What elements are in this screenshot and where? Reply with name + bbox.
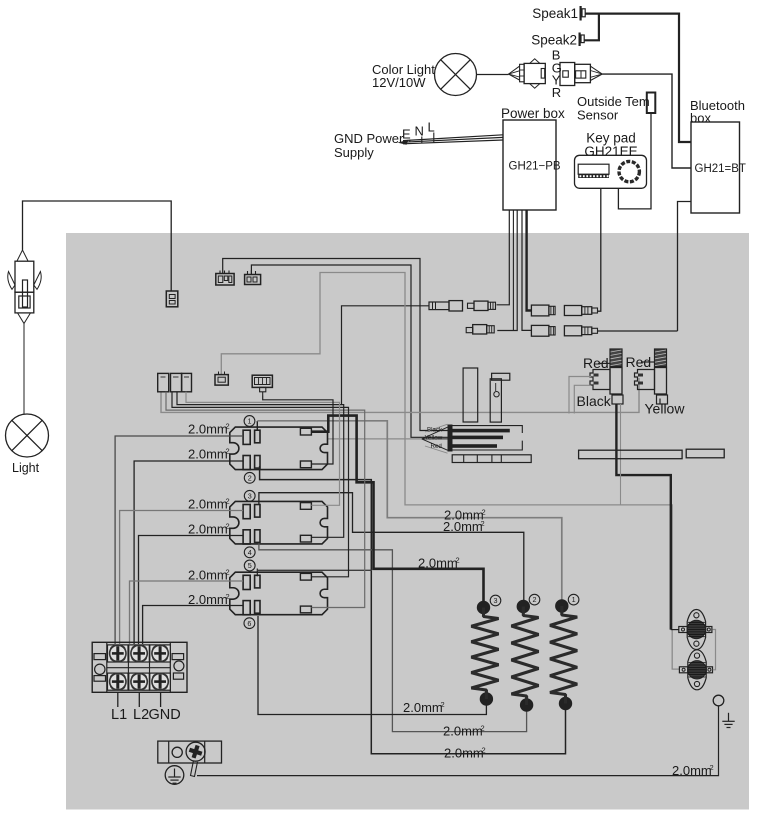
- svg-text:L: L: [428, 120, 435, 135]
- label black (small): [427, 426, 443, 433]
- wire C2 stub: [262, 392, 264, 396]
- svg-text:2: 2: [226, 522, 230, 531]
- terminal block body: [92, 642, 187, 692]
- svg-text:2: 2: [481, 724, 485, 733]
- inline connector pair D: [531, 325, 597, 336]
- terminal number 4: [244, 547, 255, 558]
- terminal block left fittings: [94, 654, 106, 682]
- wire L-feed 1: [115, 436, 243, 644]
- label Power box: [501, 106, 565, 121]
- svg-text:2.0mm: 2.0mm: [188, 497, 228, 512]
- wire power box line5 thick to pair B: [527, 210, 532, 311]
- connector B2 (panel top): [245, 270, 261, 285]
- wire L-feed 4: [139, 536, 244, 645]
- relay box K3: [230, 572, 328, 615]
- svg-text:Yellow: Yellow: [425, 435, 443, 442]
- svg-text:2: 2: [226, 422, 230, 431]
- wire terminal5 stub: [257, 569, 372, 577]
- svg-text:GH21=BT: GH21=BT: [695, 163, 746, 175]
- wire bundle K2-BR: [177, 392, 344, 538]
- wire earth to ground plate: [197, 706, 719, 776]
- wire lead GND: [160, 692, 162, 707]
- lamp light: [6, 414, 49, 457]
- heating element 1: [550, 600, 577, 710]
- 4-pin connector P1 (color light): [509, 59, 546, 88]
- bus bar 3: [453, 444, 498, 448]
- svg-text:2.0mm: 2.0mm: [188, 422, 228, 437]
- terminal screws row2: [108, 673, 171, 690]
- splitter block: [448, 425, 453, 452]
- small connector C1: [215, 372, 228, 386]
- wire red lead left: [598, 362, 610, 364]
- inline connector pair B: [531, 305, 597, 316]
- wire connector B2 loop: [251, 265, 447, 437]
- outside temp sensor probe: [647, 93, 656, 114]
- svg-text:E: E: [402, 127, 411, 142]
- wire power box line3 to connector C: [497, 210, 517, 331]
- connector C2 (4-pin): [252, 375, 272, 392]
- label 2.0mm bottom1: [403, 700, 445, 715]
- wire L-feed 2: [134, 461, 243, 644]
- svg-text:GH21−PB: GH21−PB: [509, 161, 561, 173]
- wire bundle K1-BR: [263, 396, 333, 465]
- svg-text:GH21EE: GH21EE: [584, 144, 637, 159]
- svg-text:Red: Red: [431, 443, 443, 450]
- wire sensor to keypad: [618, 113, 651, 209]
- label Outside Temp Sensor: [577, 94, 650, 123]
- svg-text:N: N: [415, 124, 424, 139]
- label Red (right sensor): [626, 354, 652, 370]
- label 2.0mm row1: [188, 422, 230, 437]
- earth symbol right: [722, 713, 734, 728]
- element number 2: [529, 594, 540, 605]
- wire terminal2 to element1 bottom: [260, 466, 566, 754]
- inline connector pair A: [429, 301, 496, 311]
- label yellow (small): [425, 435, 443, 442]
- wire connector to bluetooth box: [602, 74, 691, 168]
- svg-text:2: 2: [441, 700, 445, 709]
- svg-text:3: 3: [248, 491, 252, 500]
- wire terminal6 to element3 bottom: [258, 616, 486, 715]
- svg-text:Black: Black: [577, 393, 612, 409]
- label Speak2: [531, 33, 577, 48]
- wires E N L to power box: [398, 133, 504, 145]
- terminal number 1: [244, 416, 255, 427]
- label 2.0mm bottom2: [443, 724, 485, 739]
- svg-text:5: 5: [248, 561, 252, 570]
- svg-text:2.0mm: 2.0mm: [443, 724, 483, 739]
- label GH21-PB: [509, 161, 561, 173]
- wire L-feed 3: [120, 511, 244, 645]
- svg-text:L2: L2: [133, 707, 149, 723]
- ground plate: [158, 741, 222, 776]
- svg-text:2: 2: [710, 763, 714, 772]
- label GH21=BT: [695, 163, 746, 175]
- wire speaker1 to bluetooth box: [586, 14, 692, 142]
- wire light feed: [23, 201, 172, 291]
- inline connector C (spare): [466, 325, 494, 334]
- svg-text:2.0mm: 2.0mm: [188, 592, 228, 607]
- wire terminal1 stub: [256, 421, 258, 431]
- svg-text:Black: Black: [427, 426, 443, 433]
- label 2.0mm row3: [188, 497, 230, 512]
- wire sensor grey drop: [620, 404, 622, 505]
- wire bundle K2-TR: [186, 392, 340, 506]
- speaker jack J2: [579, 33, 585, 47]
- label 2.0mm row6: [188, 592, 230, 607]
- label Color Light 12V/10W: [372, 62, 435, 90]
- 4-pin connector P2 (harness): [560, 63, 602, 86]
- label Black: [577, 393, 612, 409]
- thermostat TH1: [679, 610, 712, 650]
- wire lamp to connector: [477, 74, 509, 76]
- svg-text:Yellow: Yellow: [645, 401, 686, 417]
- wire L-feed 5: [130, 581, 244, 644]
- wire terminal4 to element2 bottom: [259, 544, 527, 732]
- svg-text:Speak1: Speak1: [532, 6, 578, 21]
- cable splitter fan: [328, 424, 448, 453]
- svg-text:Power box: Power box: [501, 106, 565, 121]
- label 2.0mm row2: [188, 447, 230, 462]
- label Yellow: [645, 401, 686, 417]
- label 2.0mm row5: [188, 568, 230, 583]
- svg-text:2: 2: [482, 508, 486, 517]
- label 2.0mm element1: [444, 508, 486, 523]
- svg-text:6: 6: [247, 619, 251, 628]
- terminal number 5: [244, 560, 255, 571]
- svg-text:2: 2: [456, 556, 460, 565]
- svg-text:1: 1: [248, 417, 252, 426]
- svg-text:12V/10W: 12V/10W: [372, 75, 426, 90]
- wire power box line1 to pair A: [497, 210, 510, 305]
- speaker jack J1: [580, 6, 586, 21]
- svg-text:2.0mm: 2.0mm: [443, 519, 483, 534]
- label 2.0mm element2: [443, 519, 485, 534]
- wire lead L2: [138, 692, 140, 707]
- temperature sensor TS1: [590, 349, 623, 404]
- svg-text:2: 2: [533, 595, 537, 604]
- svg-text:Speak2: Speak2: [531, 33, 577, 48]
- earth circle symbol: [165, 766, 184, 785]
- wire keypad to pair B: [598, 188, 601, 311]
- label red (small): [431, 443, 443, 450]
- svg-text:2: 2: [226, 497, 230, 506]
- label GND Power Supply: [334, 131, 404, 160]
- wire bundle K3-TR: [172, 392, 349, 577]
- 3-pole connector bank: [158, 373, 192, 391]
- svg-text:2: 2: [226, 447, 230, 456]
- label 2.0mm bottom4: [672, 763, 714, 778]
- wire terminal3 to element2 top: [259, 493, 524, 602]
- svg-text:Light: Light: [12, 461, 40, 475]
- keypad knob: [619, 161, 639, 181]
- relay box K2: [230, 501, 328, 544]
- wire TS1 leads: [569, 377, 591, 414]
- svg-text:GND Power: GND Power: [334, 131, 404, 146]
- wire to light lamp: [23, 324, 25, 415]
- grey panel background: [66, 233, 749, 810]
- bracket outline: [453, 426, 523, 450]
- terminal block right fittings: [172, 654, 184, 680]
- label Bluetooth box: [690, 98, 745, 126]
- svg-text:2.0mm: 2.0mm: [188, 447, 228, 462]
- element number 3: [490, 595, 501, 606]
- wire power box line2 to pair D-left: [512, 210, 514, 331]
- svg-text:3: 3: [494, 596, 498, 605]
- wire feed to pair A: [342, 306, 430, 405]
- connector A2 (panel top): [216, 271, 234, 286]
- svg-text:2.0mm: 2.0mm: [188, 568, 228, 583]
- svg-text:R: R: [552, 85, 561, 100]
- earth terminal circle: [713, 695, 724, 706]
- temperature sensor TS2: [635, 349, 668, 404]
- wire lead L1: [117, 692, 119, 707]
- bus bar 2: [453, 436, 504, 440]
- wire thermostat top branch: [671, 629, 679, 631]
- wire pair D to bluetooth drop: [598, 330, 678, 332]
- svg-text:4: 4: [248, 548, 252, 557]
- svg-text:2: 2: [481, 519, 485, 528]
- wire connector A2 loop: [223, 259, 448, 431]
- wire TS1 black to thermostats: [616, 404, 670, 630]
- keypad GH21EE: [575, 155, 647, 188]
- svg-text:Supply: Supply: [334, 145, 374, 160]
- labels L1 L2 GND: [111, 707, 181, 723]
- label Speak1: [532, 6, 578, 21]
- wire harness labels B G Y R: [552, 48, 562, 101]
- lamp holder connector: [8, 250, 41, 324]
- lamp color light: [435, 54, 477, 96]
- terminal screws row1: [108, 645, 171, 662]
- svg-text:2.0mm: 2.0mm: [188, 522, 228, 537]
- terminal number 3: [244, 490, 255, 501]
- element number 1: [568, 594, 579, 605]
- heating element 2: [511, 600, 538, 711]
- support rail A: [579, 450, 683, 459]
- wire bluetooth to panel: [678, 202, 692, 332]
- wire TS2 yellow stub: [659, 399, 661, 405]
- svg-text:2.0mm: 2.0mm: [418, 556, 458, 571]
- label 2.0mm bottom3: [444, 746, 486, 761]
- label 2.0mm element3: [418, 556, 460, 571]
- wire thermostat series link: [713, 630, 716, 670]
- heating element 3: [471, 601, 498, 705]
- wire grey loop C1-thermostats: [221, 273, 679, 670]
- tall rectangle (element housing): [463, 368, 478, 422]
- terminal number 2: [244, 472, 255, 483]
- long grey wire to right sensor: [161, 378, 639, 412]
- bus bar 1: [453, 429, 510, 433]
- relay box K1: [230, 427, 328, 470]
- segmented strip: [452, 455, 531, 463]
- svg-text:2: 2: [482, 746, 486, 755]
- label Light: [12, 461, 40, 475]
- wire red lead right: [641, 361, 655, 363]
- wire speaker2 junction: [585, 14, 599, 41]
- wire power box line4 to pair D: [522, 210, 531, 330]
- svg-text:L1: L1: [111, 707, 127, 723]
- svg-text:2: 2: [226, 592, 230, 601]
- svg-text:2: 2: [226, 568, 230, 577]
- svg-text:2.0mm: 2.0mm: [444, 746, 484, 761]
- svg-text:2.0mm: 2.0mm: [403, 700, 443, 715]
- svg-text:box: box: [690, 111, 711, 126]
- svg-text:Sensor: Sensor: [577, 108, 619, 123]
- bluetooth box GH21-BT: [691, 122, 740, 213]
- labels E N L: [402, 120, 435, 142]
- terminal number 6: [244, 618, 255, 629]
- svg-text:GND: GND: [149, 707, 181, 723]
- svg-text:1: 1: [572, 595, 576, 604]
- wire bundle K3-BR: [166, 392, 365, 608]
- svg-text:2: 2: [248, 473, 252, 482]
- temp probe with clip: [490, 373, 510, 422]
- wire terminal1 to element1 top: [257, 421, 562, 601]
- label Key pad GH21EE: [584, 131, 637, 160]
- label 2.0mm row4: [188, 522, 230, 537]
- wire L-feed 6: [143, 606, 244, 645]
- label Red (left sensor): [583, 355, 609, 371]
- wire K1 contact thick to element3 top: [311, 416, 483, 602]
- thermostat TH2: [679, 650, 712, 690]
- panel connector for light: [166, 291, 178, 307]
- support rail B: [686, 449, 724, 458]
- power box GH21-PB: [503, 120, 556, 210]
